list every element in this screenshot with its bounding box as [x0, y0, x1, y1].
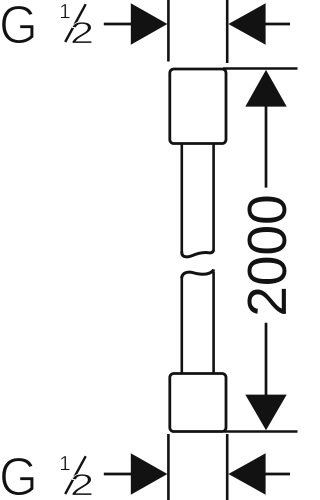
hose nut fitting (top)	[170, 69, 226, 144]
dimension arrowhead pointing left (bottom)	[228, 453, 265, 494]
extension line left (bottom G1/2 dimension)	[167, 434, 170, 500]
dimension text 2000 (rotated)	[247, 196, 286, 313]
dimension arrowhead pointing left (top)	[228, 3, 265, 44]
fraction numerator 1 (bottom)	[61, 456, 70, 470]
dimension arrowhead pointing right (top)	[131, 3, 168, 44]
extension line right (bottom G1/2 dimension)	[226, 434, 229, 500]
dimension leader tail right (bottom)	[264, 473, 290, 476]
extension line left (top G1/2 dimension)	[167, 0, 170, 62]
hose lower segment left wall	[181, 278, 184, 374]
extension line bottom (2000 length dimension)	[224, 430, 298, 433]
hose break wavy line (lower segment top)	[182, 269, 214, 278]
dimension leader tail right (top)	[264, 23, 290, 26]
fraction denominator 2 (top)	[72, 22, 92, 43]
fraction numerator 1 (top)	[61, 4, 70, 18]
dimension arrowhead pointing right (bottom)	[131, 453, 168, 494]
extension line right (top G1/2 dimension)	[226, 0, 229, 63]
label G (top thread size)	[2, 6, 34, 44]
fraction denominator 2 (bottom)	[72, 474, 92, 495]
hose upper segment right wall	[212, 144, 215, 251]
hose lower segment right wall	[212, 272, 215, 374]
dimension arrowhead pointing up (2000)	[245, 70, 286, 107]
dimension leader tail left (top)	[104, 23, 132, 26]
fraction slash (top)	[65, 4, 86, 42]
fraction slash (bottom)	[65, 456, 86, 494]
extension line top (2000 length dimension)	[223, 67, 298, 70]
label G (bottom thread size)	[2, 458, 34, 496]
dimension leader tail left (bottom)	[104, 473, 132, 476]
hose nut fitting (bottom)	[170, 374, 226, 432]
hose break wavy line (upper segment bottom)	[182, 250, 214, 257]
dimension line upper segment (2000)	[265, 106, 268, 188]
dimension arrowhead pointing down (2000)	[245, 395, 286, 431]
dimension line lower segment (2000)	[265, 323, 268, 395]
hose upper segment left wall	[181, 144, 184, 253]
